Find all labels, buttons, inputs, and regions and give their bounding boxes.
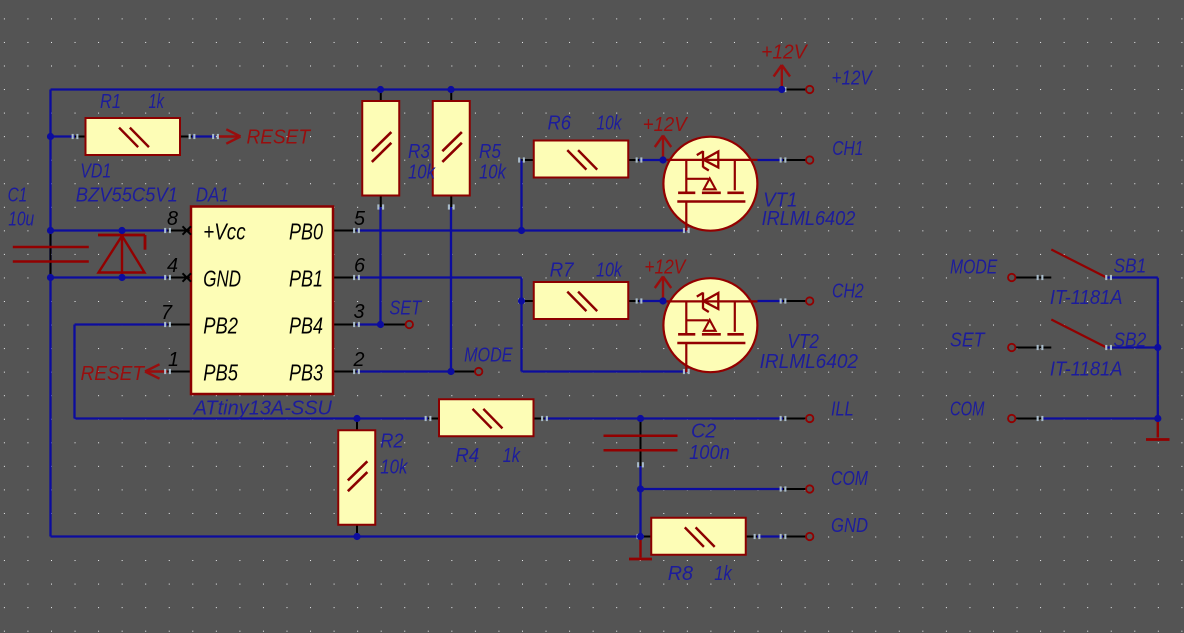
svg-text:R7: R7	[550, 260, 575, 282]
svg-text:SET: SET	[950, 329, 986, 351]
svg-text:3: 3	[354, 301, 365, 323]
svg-text:PB5: PB5	[203, 359, 238, 385]
svg-text:IT-1181A: IT-1181A	[1050, 358, 1123, 380]
svg-text:BZV55C5V1: BZV55C5V1	[76, 185, 178, 207]
svg-text:1k: 1k	[503, 445, 521, 467]
svg-text:2: 2	[353, 349, 365, 371]
svg-text:+12V: +12V	[832, 68, 874, 90]
svg-text:R3: R3	[408, 141, 430, 163]
svg-text:CH2: CH2	[832, 281, 864, 303]
svg-text:10k: 10k	[408, 162, 436, 184]
svg-text:R1: R1	[100, 91, 121, 113]
svg-text:PB0: PB0	[289, 218, 323, 244]
svg-text:10k: 10k	[380, 457, 408, 479]
svg-text:IRLML6402: IRLML6402	[762, 208, 856, 230]
svg-text:10u: 10u	[8, 209, 34, 231]
svg-text:RESET: RESET	[247, 127, 312, 149]
svg-text:PB2: PB2	[203, 312, 238, 338]
svg-text:R5: R5	[479, 141, 502, 163]
svg-text:R2: R2	[380, 431, 403, 453]
svg-text:+12V: +12V	[643, 114, 688, 136]
svg-text:R6: R6	[548, 113, 572, 135]
svg-text:IRLML6402: IRLML6402	[760, 351, 858, 373]
svg-text:R4: R4	[455, 445, 479, 467]
svg-text:DA1: DA1	[196, 185, 229, 207]
svg-text:4: 4	[167, 255, 178, 277]
svg-text:7: 7	[161, 302, 173, 324]
svg-text:100n: 100n	[689, 442, 730, 464]
svg-text:10k: 10k	[479, 162, 507, 184]
svg-text:SET: SET	[389, 298, 422, 320]
svg-text:VT2: VT2	[787, 331, 819, 353]
svg-text:ATtiny13A-SSU: ATtiny13A-SSU	[193, 398, 333, 420]
svg-text:6: 6	[354, 255, 366, 277]
svg-text:VD1: VD1	[80, 161, 111, 183]
svg-text:MODE: MODE	[950, 257, 998, 279]
svg-text:SB2: SB2	[1114, 329, 1147, 351]
svg-text:ILL: ILL	[831, 399, 854, 421]
svg-text:PB4: PB4	[289, 312, 323, 338]
svg-text:10k: 10k	[597, 113, 623, 135]
svg-text:MODE: MODE	[464, 345, 513, 367]
svg-text:+Vcc: +Vcc	[203, 218, 246, 244]
svg-text:+12V: +12V	[761, 41, 808, 63]
svg-text:8: 8	[167, 208, 178, 230]
svg-text:IT-1181A: IT-1181A	[1050, 287, 1123, 309]
svg-text:C1: C1	[8, 185, 28, 207]
svg-text:RESET: RESET	[81, 363, 146, 385]
svg-text:COM: COM	[831, 468, 868, 490]
svg-text:GND: GND	[831, 515, 868, 537]
svg-text:1: 1	[168, 349, 179, 371]
svg-text:PB3: PB3	[289, 359, 323, 385]
svg-text:1k: 1k	[714, 563, 732, 585]
svg-text:C2: C2	[691, 421, 716, 443]
svg-text:PB1: PB1	[289, 265, 323, 291]
svg-text:5: 5	[354, 208, 366, 230]
svg-text:+12V: +12V	[644, 256, 686, 278]
svg-text:CH1: CH1	[832, 138, 863, 160]
svg-text:10k: 10k	[596, 260, 623, 282]
svg-text:SB1: SB1	[1114, 256, 1147, 278]
svg-text:GND: GND	[203, 265, 241, 291]
svg-text:1k: 1k	[149, 91, 165, 113]
svg-text:R8: R8	[668, 563, 693, 585]
svg-text:COM: COM	[950, 398, 985, 420]
